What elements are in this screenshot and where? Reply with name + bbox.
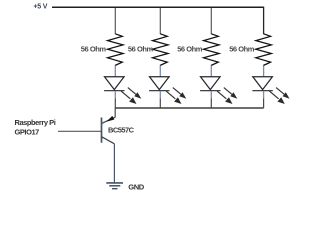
svg-text:+5 V: +5 V bbox=[33, 4, 47, 11]
LED D3 bbox=[200, 77, 220, 91]
LED D4 emission arrows bbox=[269, 88, 289, 104]
wire drop to R4 bbox=[263, 7, 265, 35]
svg-text:56 Ohm: 56 Ohm bbox=[128, 44, 154, 53]
LED D2 bbox=[149, 77, 169, 91]
wire Q1 collector to ground bbox=[113, 144, 115, 183]
wire bottom rail bbox=[115, 107, 263, 109]
wire R1 to D1 bbox=[114, 66, 116, 78]
svg-text:GPIO17: GPIO17 bbox=[15, 127, 40, 136]
wire drop to R3 bbox=[210, 8, 212, 34]
wire drop to R1 bbox=[114, 8, 116, 34]
LED D1 emission arrows bbox=[121, 88, 141, 104]
LED D3 emission arrows bbox=[217, 88, 237, 104]
wire GPIO17 to base bbox=[58, 130, 101, 132]
LED D2 emission arrows bbox=[166, 88, 186, 104]
svg-text:56 Ohm: 56 Ohm bbox=[81, 44, 107, 53]
resistor R3 bbox=[204, 34, 220, 66]
svg-text:GND: GND bbox=[128, 183, 144, 192]
wire rail to Q1 emitter bbox=[114, 108, 116, 117]
transistor Q1 BC557C (PNP) bbox=[102, 116, 116, 144]
wire D2 to bottom rail bbox=[159, 92, 161, 109]
wire D3 to bottom rail bbox=[210, 92, 212, 109]
svg-text:Raspberry Pi: Raspberry Pi bbox=[15, 118, 56, 127]
wire R3 to D3 bbox=[210, 66, 212, 78]
resistor R4 bbox=[256, 34, 272, 66]
LED D1 bbox=[104, 77, 124, 91]
LED D4 bbox=[252, 77, 272, 91]
label Raspberry Pi GPIO17 bbox=[15, 118, 56, 136]
wire +5V top rail bbox=[52, 6, 264, 8]
wire R2 to D2 bbox=[159, 66, 161, 78]
wire drop to R2 bbox=[159, 8, 161, 34]
wire D4 to bottom rail bbox=[263, 92, 265, 109]
svg-text:56 Ohm: 56 Ohm bbox=[229, 44, 255, 53]
svg-text:BC557C: BC557C bbox=[108, 126, 135, 135]
svg-text:56 Ohm: 56 Ohm bbox=[177, 44, 203, 53]
resistor R2 bbox=[153, 34, 169, 66]
ground bbox=[106, 183, 123, 189]
resistor R1 bbox=[108, 34, 124, 66]
wire R4 to D4 bbox=[263, 66, 265, 78]
wire D1 to bottom rail bbox=[114, 92, 116, 109]
